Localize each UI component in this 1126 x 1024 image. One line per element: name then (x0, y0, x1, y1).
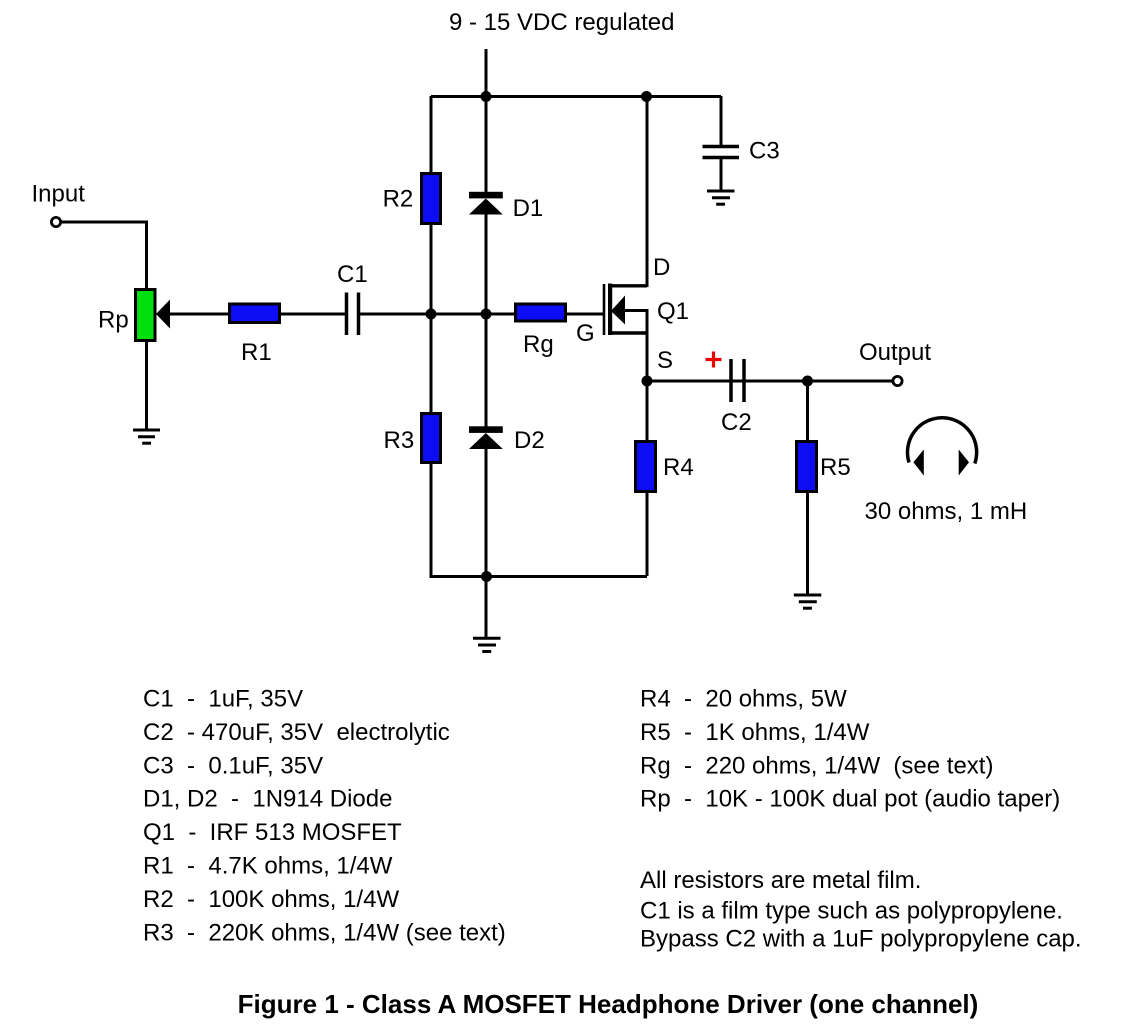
svg-text:Bypass C2 with a 1uF polypropy: Bypass C2 with a 1uF polypropylene cap. (640, 926, 1082, 953)
svg-text:R4: R4 (663, 454, 694, 481)
svg-text:G: G (576, 320, 595, 347)
svg-text:R1 - 4.7K ohms, 1/4W: R1 - 4.7K ohms, 1/4W (143, 853, 393, 880)
svg-text:C2 - 470uF, 35V electrolytic: C2 - 470uF, 35V electrolytic (143, 719, 450, 746)
svg-text:R4 - 20 ohms, 5W: R4 - 20 ohms, 5W (640, 686, 847, 713)
svg-text:C1 is a film type such as poly: C1 is a film type such as polypropylene. (640, 898, 1063, 925)
svg-text:30 ohms, 1 mH: 30 ohms, 1 mH (865, 498, 1028, 525)
svg-text:Rg - 220 ohms, 1/4W (see te: Rg - 220 ohms, 1/4W (see text) (640, 752, 993, 779)
svg-text:C3: C3 (749, 138, 780, 165)
svg-text:Q1: Q1 (657, 298, 689, 325)
svg-text:D1: D1 (513, 195, 544, 222)
svg-text:R3: R3 (384, 427, 415, 454)
svg-text:C3 - 0.1uF, 35V: C3 - 0.1uF, 35V (143, 752, 323, 779)
svg-text:R1: R1 (241, 339, 272, 366)
svg-text:R2: R2 (383, 186, 414, 213)
svg-text:Output: Output (859, 339, 931, 366)
svg-text:Rp - 10K - 100K dual pot (au: Rp - 10K - 100K dual pot (audio taper) (640, 786, 1060, 813)
svg-text:C2: C2 (721, 409, 752, 436)
svg-text:All resistors are metal film.: All resistors are metal film. (640, 867, 921, 894)
svg-text:D1, D2 - 1N914 Diode: D1, D2 - 1N914 Diode (143, 786, 392, 813)
svg-text:D2: D2 (514, 427, 545, 454)
svg-text:Q1 - IRF 513 MOSFET: Q1 - IRF 513 MOSFET (143, 819, 402, 846)
svg-text:Rp: Rp (98, 307, 129, 334)
svg-text:Rg: Rg (523, 331, 554, 358)
svg-text:D: D (653, 254, 670, 281)
svg-text:S: S (657, 347, 673, 374)
svg-text:Input: Input (32, 181, 86, 208)
svg-text:R5 - 1K ohms, 1/4W: R5 - 1K ohms, 1/4W (640, 719, 870, 746)
svg-text:C1 - 1uF, 35V: C1 - 1uF, 35V (143, 686, 303, 713)
svg-text:R5: R5 (820, 454, 851, 481)
svg-text:9 - 15 VDC regulated: 9 - 15 VDC regulated (449, 9, 674, 36)
svg-text:C1: C1 (337, 261, 368, 288)
svg-text:R3 - 220K ohms, 1/4W (see te: R3 - 220K ohms, 1/4W (see text) (143, 919, 506, 946)
svg-text:R2 - 100K ohms, 1/4W: R2 - 100K ohms, 1/4W (143, 886, 399, 913)
svg-text:Figure 1 - Class A MOSFET Head: Figure 1 - Class A MOSFET Headphone Driv… (238, 989, 979, 1019)
